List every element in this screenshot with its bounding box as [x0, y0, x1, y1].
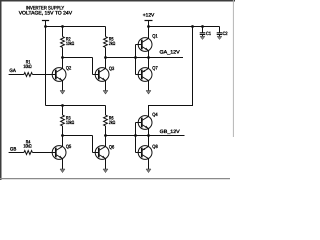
- wire bottom rail: [46, 105, 106, 107]
- resistor R4: [24, 151, 33, 155]
- wire Q4 emitter to node: [148, 129, 150, 136]
- svg-text:10kΩ: 10kΩ: [66, 120, 74, 126]
- node dot +12V rail: [147, 25, 150, 28]
- ground under Q5: [60, 169, 65, 173]
- node dot R2 bottom: [61, 56, 64, 59]
- wire +12V down to Q1 collector: [148, 21, 150, 39]
- svg-text:10kΩ: 10kΩ: [66, 41, 74, 47]
- wire R6 top stub: [105, 106, 107, 116]
- capacitor C1: [200, 27, 206, 40]
- resistor R3: [61, 115, 65, 126]
- wire R4 to Q5 base: [32, 152, 55, 154]
- node dot R3 bottom: [61, 134, 64, 137]
- wire Q1 base lead: [136, 44, 142, 46]
- wire R6 bottom / Q6 collector: [105, 126, 107, 146]
- wire Q3 base lead: [93, 74, 99, 76]
- node dot supply rail left: [44, 25, 47, 28]
- wire node B down: [92, 136, 94, 153]
- wire Q5 collector: [62, 136, 64, 147]
- wire supply vertical: [45, 21, 47, 106]
- ground under Q2: [60, 91, 65, 95]
- wire Q8 emitter up lead: [148, 136, 150, 147]
- wire R2 stub: [62, 27, 64, 37]
- wire Q2 emitter to ground: [62, 81, 64, 91]
- wire Q3 emitter to ground: [105, 81, 107, 91]
- node dot base bus GA: [134, 56, 137, 59]
- transistor Q7 (PNP): [138, 68, 152, 82]
- wire base bus Q4 Q8: [135, 123, 137, 153]
- wire R1 to Q2 base: [32, 74, 55, 76]
- wire node A horizontal: [63, 57, 93, 59]
- supply terminal tick: [42, 20, 49, 22]
- transistor Q1: [138, 38, 152, 52]
- wire Q5 emitter to ground: [62, 159, 64, 169]
- transistor Q4: [138, 116, 152, 130]
- wire Q6 base lead: [93, 152, 99, 154]
- node dot feed down: [191, 25, 194, 28]
- svg-text:Q8: Q8: [152, 144, 158, 150]
- svg-text:C2: C2: [223, 31, 228, 37]
- wire top rail: [46, 26, 106, 28]
- ground under Q6: [103, 169, 108, 173]
- node dot GA_12V: [147, 56, 150, 59]
- wire Q6 emitter to ground: [105, 159, 107, 169]
- wire Q4 base lead: [136, 122, 142, 124]
- svg-text:GB: GB: [10, 146, 16, 152]
- wire Q1 emitter to node: [148, 51, 150, 58]
- wire Q7 emitter up lead: [148, 58, 150, 69]
- node dot R2 top: [61, 25, 64, 28]
- wire R2 bottom: [62, 47, 64, 57]
- node dot base bus GB: [134, 134, 137, 137]
- node dot GB_12V: [147, 134, 150, 137]
- border frame: [0, 0, 235, 180]
- wire GB input: [9, 152, 24, 154]
- wire R3 stub: [62, 106, 64, 116]
- svg-text:Q2: Q2: [66, 66, 72, 72]
- wire R5 bottom / Q3 collector: [105, 47, 107, 68]
- wire drive net GA: [106, 57, 184, 59]
- wire node A down: [92, 58, 94, 75]
- svg-text:GA_12V: GA_12V: [160, 50, 181, 56]
- resistor R5: [104, 37, 108, 48]
- wire drive net GB: [106, 135, 185, 137]
- svg-text:VOLTAGE, 15V TO 24V: VOLTAGE, 15V TO 24V: [19, 10, 73, 16]
- resistor R6: [104, 115, 108, 126]
- wire capacitor rail: [149, 26, 220, 28]
- wire +12V feed down right side: [149, 27, 193, 117]
- node dot R6 bottom: [104, 134, 107, 137]
- wire R3 bottom: [62, 126, 64, 136]
- svg-text:C1: C1: [206, 31, 211, 37]
- svg-text:Q7: Q7: [152, 65, 158, 71]
- wire Q7 collector to ground: [148, 81, 150, 91]
- transistor Q6: [95, 146, 109, 160]
- svg-text:Q5: Q5: [66, 144, 72, 150]
- svg-text:Q3: Q3: [109, 66, 115, 72]
- svg-text:2kΩ: 2kΩ: [109, 120, 116, 126]
- resistor R2: [61, 37, 65, 48]
- transistor Q2: [52, 68, 66, 82]
- svg-text:GA: GA: [9, 68, 16, 74]
- svg-text:Q4: Q4: [152, 112, 158, 118]
- +12V terminal tick: [145, 20, 153, 22]
- resistor R1: [24, 73, 33, 77]
- wire Q2 collector: [62, 58, 64, 69]
- wire GA input: [9, 74, 24, 76]
- svg-text:+12V: +12V: [143, 13, 155, 19]
- wire node B horizontal: [63, 135, 93, 137]
- node dot C1: [201, 25, 204, 28]
- node dot R5 bottom: [104, 56, 107, 59]
- svg-text:2kΩ: 2kΩ: [109, 41, 116, 47]
- wire Q8 base lead: [136, 152, 142, 154]
- capacitor C2: [217, 27, 223, 40]
- svg-text:Q6: Q6: [109, 145, 115, 151]
- transistor Q3: [95, 68, 109, 82]
- svg-text:10kΩ: 10kΩ: [23, 144, 31, 150]
- ground under Q8: [146, 169, 151, 173]
- ground under Q3: [103, 91, 108, 95]
- wire base bus Q1 Q7: [135, 45, 137, 75]
- wire R5 top stub: [105, 27, 107, 37]
- node dot R3 top: [61, 104, 64, 107]
- ground under Q7: [146, 91, 151, 95]
- svg-text:10kΩ: 10kΩ: [23, 64, 31, 70]
- svg-text:GB_12V: GB_12V: [160, 129, 181, 135]
- transistor Q5: [52, 146, 66, 160]
- svg-text:Q1: Q1: [152, 34, 158, 40]
- transistor Q8 (PNP): [138, 146, 152, 160]
- wire Q8 collector to ground: [148, 159, 150, 169]
- wire Q7 base lead: [136, 74, 142, 76]
